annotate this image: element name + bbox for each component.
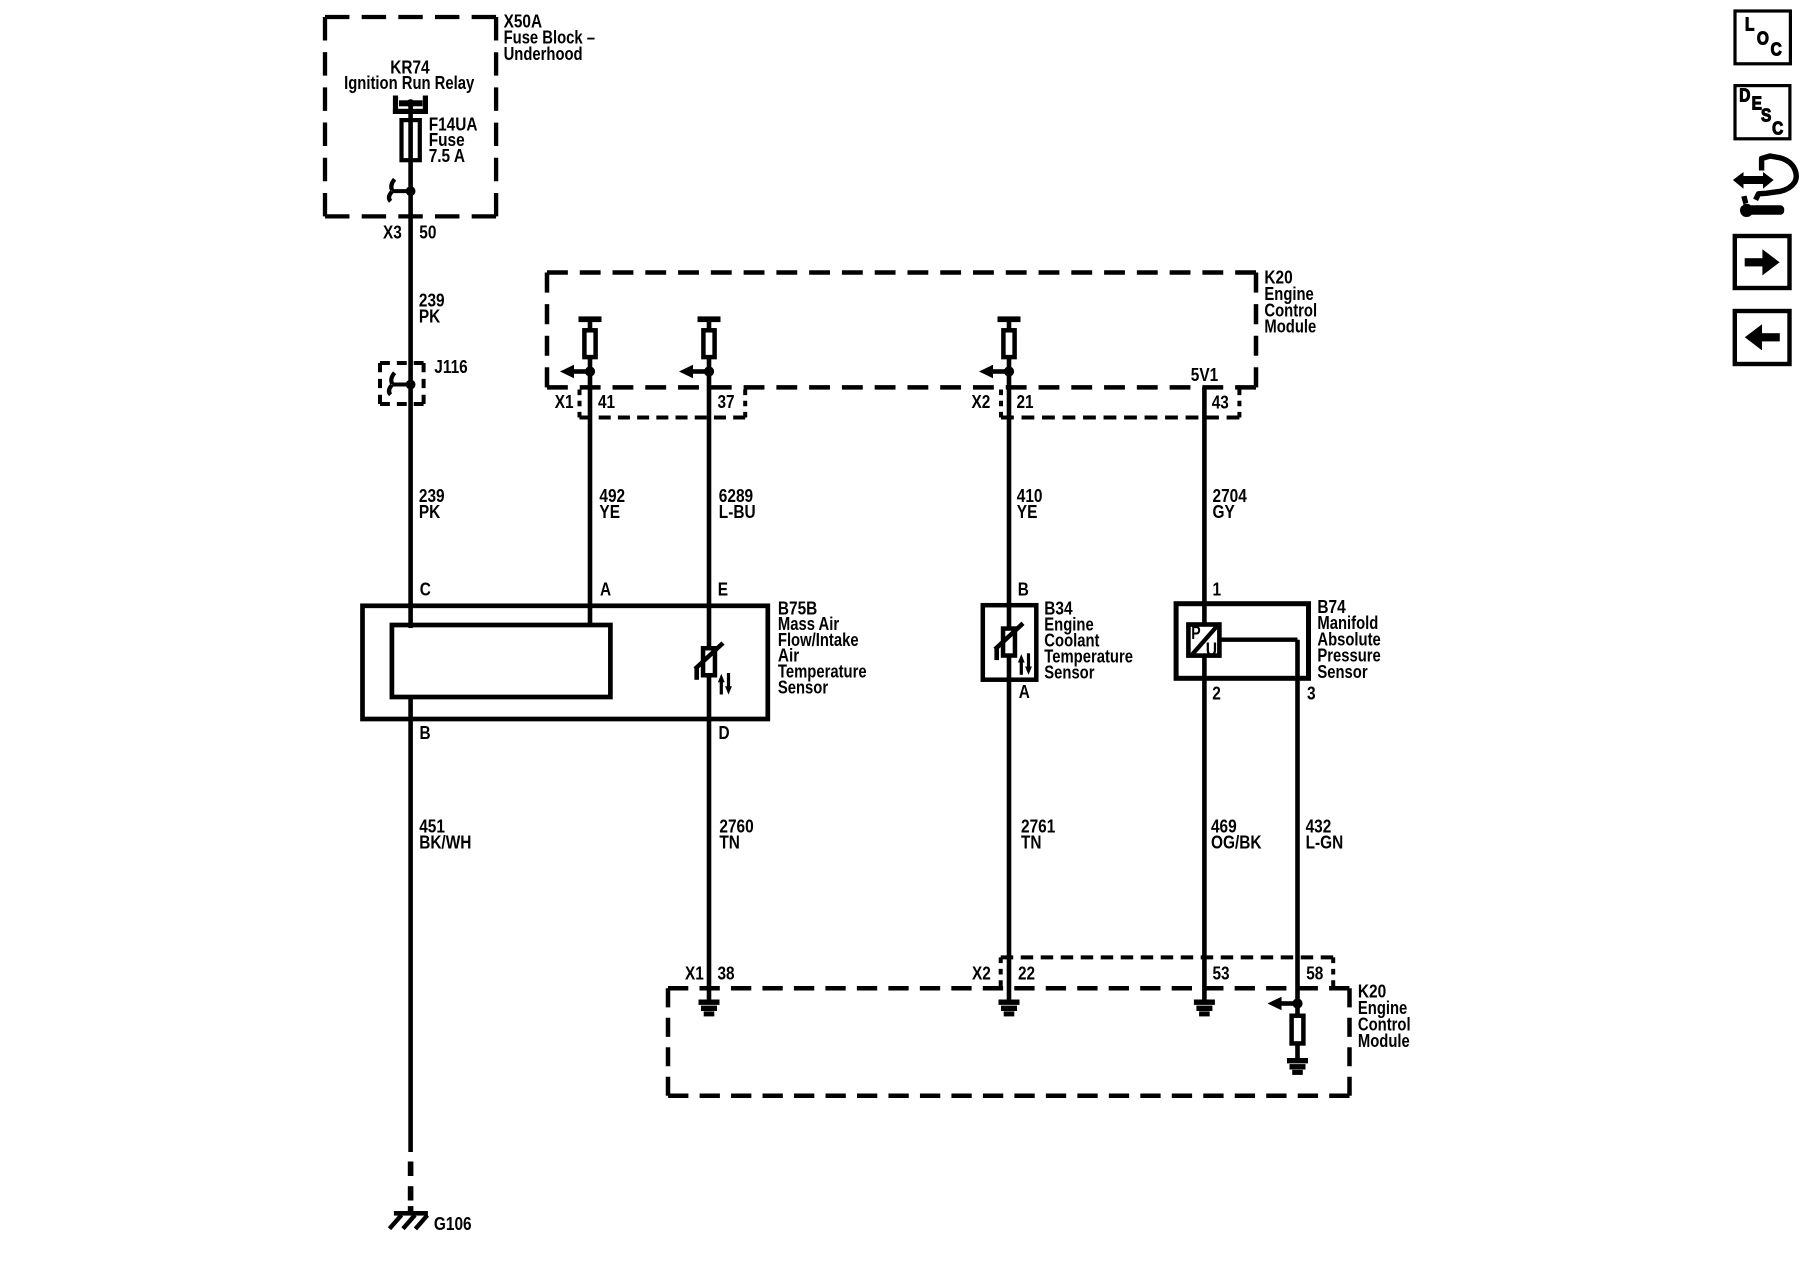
- svg-text:5V1: 5V1: [1191, 365, 1218, 385]
- svg-text:GY: GY: [1213, 502, 1235, 522]
- svg-text:3: 3: [1307, 684, 1316, 704]
- svg-text:37: 37: [718, 392, 735, 412]
- svg-text:A: A: [1019, 682, 1030, 702]
- svg-text:C: C: [420, 580, 431, 600]
- svg-text:A: A: [600, 580, 611, 600]
- svg-text:BK/WH: BK/WH: [419, 832, 471, 852]
- svg-text:X3: X3: [383, 223, 402, 243]
- svg-text:58: 58: [1306, 963, 1323, 983]
- svg-text:L-GN: L-GN: [1306, 832, 1344, 852]
- svg-text:B: B: [420, 723, 431, 743]
- svg-text:50: 50: [419, 223, 436, 243]
- svg-text:X1: X1: [685, 964, 704, 984]
- svg-text:Sensor: Sensor: [1044, 662, 1094, 682]
- svg-text:43: 43: [1212, 392, 1229, 412]
- svg-text:22: 22: [1018, 964, 1035, 984]
- svg-text:U: U: [1206, 639, 1217, 659]
- svg-text:E: E: [718, 580, 728, 600]
- svg-text:Module: Module: [1358, 1031, 1410, 1051]
- svg-text:Sensor: Sensor: [1317, 662, 1367, 682]
- svg-text:G106: G106: [434, 1214, 472, 1234]
- svg-text:X2: X2: [972, 392, 991, 412]
- svg-text:38: 38: [718, 964, 735, 984]
- svg-text:PK: PK: [419, 306, 440, 326]
- svg-text:TN: TN: [1021, 832, 1042, 852]
- svg-text:TN: TN: [719, 832, 740, 852]
- svg-text:D: D: [1739, 86, 1750, 106]
- svg-text:7.5 A: 7.5 A: [429, 146, 465, 166]
- svg-text:X1: X1: [555, 392, 574, 412]
- svg-text:Ignition Run Relay: Ignition Run Relay: [344, 73, 474, 93]
- svg-text:L-BU: L-BU: [719, 502, 756, 522]
- svg-text:Underhood: Underhood: [504, 44, 583, 64]
- svg-text:J116: J116: [434, 357, 467, 377]
- svg-text:PK: PK: [419, 502, 440, 522]
- svg-text:OG/BK: OG/BK: [1211, 832, 1262, 852]
- svg-text:C: C: [1772, 119, 1783, 139]
- svg-text:S: S: [1761, 106, 1771, 126]
- svg-text:53: 53: [1213, 964, 1230, 984]
- svg-text:1: 1: [1213, 580, 1222, 600]
- svg-text:P: P: [1191, 623, 1200, 643]
- svg-text:B: B: [1018, 580, 1029, 600]
- svg-text:Sensor: Sensor: [778, 677, 828, 697]
- svg-text:2: 2: [1212, 684, 1221, 704]
- svg-text:C: C: [1771, 40, 1782, 60]
- svg-text:X2: X2: [972, 964, 991, 984]
- svg-text:D: D: [719, 723, 730, 743]
- svg-text:L: L: [1745, 15, 1754, 35]
- svg-text:41: 41: [598, 392, 615, 412]
- svg-text:YE: YE: [1017, 502, 1038, 522]
- svg-text:Module: Module: [1264, 317, 1316, 337]
- svg-text:21: 21: [1017, 392, 1034, 412]
- svg-text:O: O: [1757, 28, 1769, 48]
- svg-text:YE: YE: [599, 502, 620, 522]
